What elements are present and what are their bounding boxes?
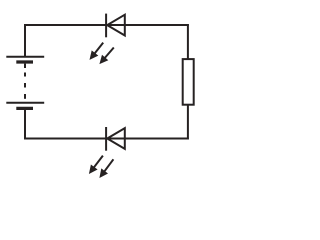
wire: left lower (battery - down to bottom-left corner) — [24, 110, 26, 140]
LED D2 emission arrow 1 — [89, 156, 103, 174]
wire: bottom rail (bottom-left corner to LED2 to resistor) — [24, 138, 189, 140]
wire: top rail (battery + to LED1 to resistor) — [24, 24, 189, 26]
battery cell 2 negative plate (short) — [16, 107, 33, 110]
wire: right lower (resistor to bottom-right corner) — [187, 104, 189, 139]
LED D2 triangle (anode) — [107, 128, 125, 149]
battery cell 2 positive plate (long) — [6, 102, 44, 104]
LED D2 cathode bar — [105, 127, 107, 151]
battery cell 1 negative plate (short) — [16, 60, 33, 63]
resistor R1 — [183, 59, 194, 105]
LED D2 emission arrow 2 — [99, 159, 113, 178]
wire: right upper (top-right corner down to resistor) — [187, 24, 189, 60]
LED D1 triangle (anode) — [107, 15, 125, 36]
wire: left upper (top-left corner down to battery) — [24, 24, 26, 57]
LED D1 cathode bar — [105, 14, 107, 38]
wire: dashed link between battery cells — [24, 64, 26, 99]
LED D1 emission arrow 2 — [99, 48, 113, 65]
LED D1 emission arrow 1 — [90, 43, 104, 60]
battery cell 1 positive plate (long) — [6, 56, 44, 58]
